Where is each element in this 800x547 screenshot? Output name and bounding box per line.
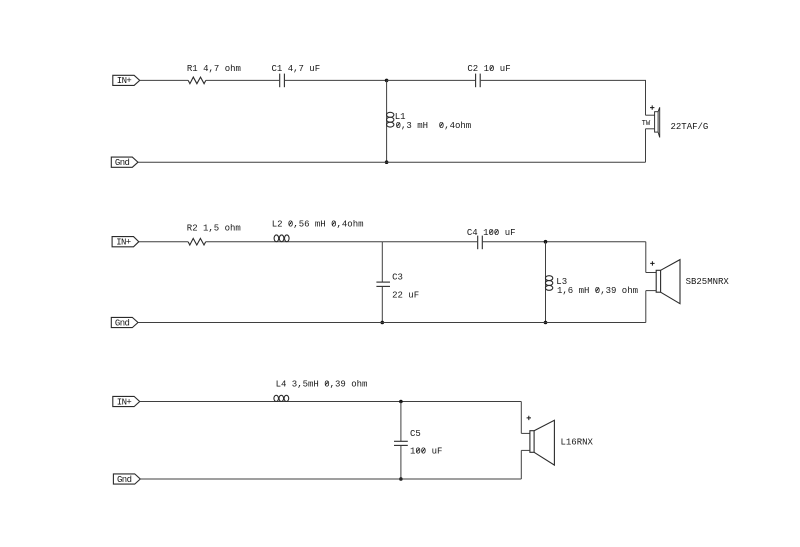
wire C5 branch (node G down) xyxy=(400,402,402,442)
wire IN+ to woofer node xyxy=(140,401,522,403)
speaker L16RNX xyxy=(530,420,555,465)
speaker mid polarity + xyxy=(650,261,654,265)
capacitor C5 value label xyxy=(410,447,442,457)
wire C3 branch (node C down) xyxy=(381,242,383,282)
terminal IN+ (top section) xyxy=(113,75,140,86)
inductor L2 xyxy=(274,235,289,242)
svg-text:C2 10 uF: C2 10 uF xyxy=(467,64,510,74)
svg-text:L16RNX: L16RNX xyxy=(561,437,594,447)
wire IN+ to R2 xyxy=(139,241,188,243)
terminal Gnd (middle section) xyxy=(111,317,138,328)
svg-text:C3: C3 xyxy=(392,273,403,283)
wire node C to C4 xyxy=(382,241,477,243)
svg-text:1,6 mH 0,39 ohm: 1,6 mH 0,39 ohm xyxy=(557,286,638,296)
wire mid speaker + lead xyxy=(646,272,656,274)
terminal Gnd (bottom section) xyxy=(113,474,140,485)
inductor L2 value label xyxy=(272,219,364,229)
wire R1 to C1 xyxy=(206,79,279,81)
svg-text:Gnd: Gnd xyxy=(115,158,130,168)
wire node A to gnd (L1 branch) xyxy=(386,80,388,162)
inductor L3 xyxy=(545,276,552,291)
wire node G to woofer xyxy=(520,402,522,434)
svg-text:L2 0,56 mH 0,4ohm: L2 0,56 mH 0,4ohm xyxy=(272,219,364,229)
wire tweeter - lead xyxy=(646,128,655,130)
terminal IN+ (bottom section) xyxy=(113,396,140,407)
node F junction dot xyxy=(544,321,548,325)
wire C5 to gnd xyxy=(400,445,402,479)
wire L3 branch (node E down) xyxy=(545,242,547,323)
svg-text:C1 4,7 uF: C1 4,7 uF xyxy=(272,64,321,74)
terminal IN+ (middle section) xyxy=(112,237,139,248)
svg-text:C5: C5 xyxy=(410,429,421,439)
svg-text:R1 4,7 ohm: R1 4,7 ohm xyxy=(187,64,241,74)
wire gnd rail (top section) xyxy=(138,161,646,163)
node G junction dot xyxy=(399,400,403,404)
node A junction dot xyxy=(385,79,389,83)
svg-text:22TAF/G: 22TAF/G xyxy=(671,122,709,132)
wire woofer to gnd xyxy=(520,450,522,479)
node E junction dot xyxy=(544,240,548,244)
wire C4 to node E xyxy=(483,241,646,243)
wire C3 to gnd xyxy=(381,286,383,322)
capacitor C5 xyxy=(394,441,408,445)
svg-text:L4 3,5mH 0,39 ohm: L4 3,5mH 0,39 ohm xyxy=(276,379,368,389)
wire mid speaker - lead xyxy=(646,290,656,292)
svg-text:R2 1,5 ohm: R2 1,5 ohm xyxy=(187,224,241,234)
capacitor C2 value label xyxy=(467,64,510,74)
wire tweeter + lead xyxy=(646,114,655,116)
wire R2 to L2 xyxy=(206,241,383,243)
node H junction dot xyxy=(399,477,403,481)
capacitor C4 value label xyxy=(467,228,516,238)
wire node E to mid speaker xyxy=(645,242,647,273)
capacitor C3 xyxy=(376,282,390,286)
capacitor C2 xyxy=(476,74,481,88)
wire tweeter to gnd xyxy=(645,129,647,162)
wire IN+ to R1 xyxy=(140,79,189,81)
speaker TW 22TAF/G xyxy=(655,107,660,137)
node B junction dot xyxy=(385,160,389,164)
terminal Gnd (top section) xyxy=(111,157,138,168)
svg-text:TW: TW xyxy=(642,120,651,128)
capacitor C1 xyxy=(280,74,285,88)
svg-text:Gnd: Gnd xyxy=(115,318,130,328)
speaker SB25MNRX xyxy=(656,260,680,304)
wire C2 to tweeter xyxy=(481,80,646,115)
wire gnd rail (bottom section) xyxy=(140,478,521,480)
svg-text:Gnd: Gnd xyxy=(117,475,132,485)
inductor L4 value label xyxy=(276,379,368,389)
wire C1 to node A xyxy=(285,79,387,81)
inductor L4 xyxy=(274,395,289,401)
wire woofer + lead xyxy=(521,432,530,434)
wire mid speaker to gnd xyxy=(645,291,647,323)
inductor L1 value label xyxy=(396,121,472,131)
svg-text:22 uF: 22 uF xyxy=(392,291,419,301)
speaker TW polarity + xyxy=(650,105,654,109)
inductor L1 xyxy=(387,112,394,127)
svg-text:IN+: IN+ xyxy=(117,397,132,407)
speaker woofer polarity + xyxy=(527,416,531,420)
svg-text:SB25MNRX: SB25MNRX xyxy=(686,277,730,287)
resistor R1 xyxy=(188,77,206,84)
wire node A to C2 xyxy=(387,79,476,81)
capacitor C4 xyxy=(478,236,483,250)
node D junction dot xyxy=(381,321,385,325)
inductor L3 value label xyxy=(557,286,638,296)
svg-text:IN+: IN+ xyxy=(116,238,131,248)
svg-text:100 uF: 100 uF xyxy=(410,447,442,457)
svg-text:0,3 mH 0,4ohm: 0,3 mH 0,4ohm xyxy=(396,121,472,131)
wire gnd rail (middle section) xyxy=(138,322,646,324)
svg-text:IN+: IN+ xyxy=(117,76,132,86)
svg-text:C4 100 uF: C4 100 uF xyxy=(467,228,516,238)
resistor R2 xyxy=(188,238,206,245)
wire woofer - lead xyxy=(521,449,530,451)
